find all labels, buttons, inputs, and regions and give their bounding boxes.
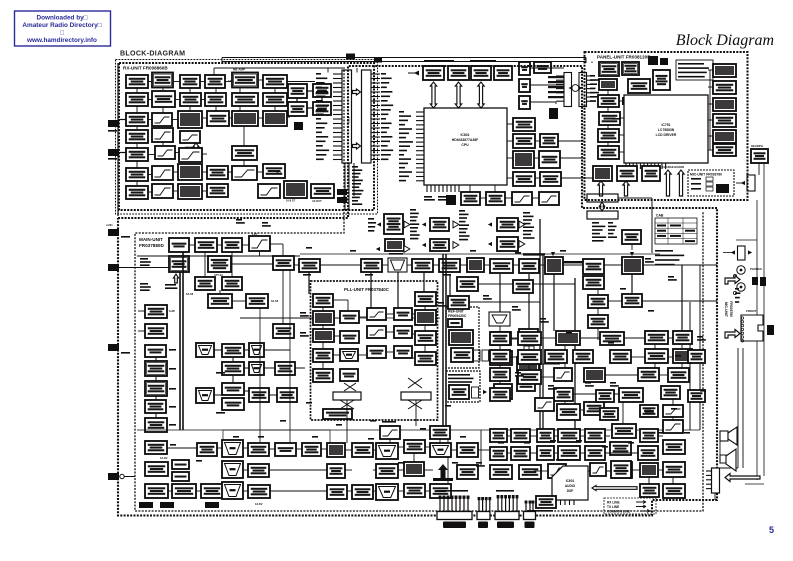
Q816 transmit SW (540, 172, 561, 186)
wire c3 (189, 88, 191, 93)
sq labels (216, 372, 225, 374)
ceramic filter CF201 (169, 256, 189, 272)
wire leftcol 1 (155, 357, 157, 361)
wire agc2 (243, 160, 245, 166)
IC601 audio DSP block (552, 466, 588, 500)
RX Q1034 NB amp (263, 75, 287, 88)
Q226 sql sw (222, 383, 244, 395)
RX 1st mixer D1001 (178, 111, 202, 128)
RX Q1009 converter (180, 93, 201, 106)
MAIN amp (430, 443, 451, 457)
RX noise amp (178, 184, 202, 199)
wire chain drop x632 (631, 274, 633, 294)
svg-text:HD6433877A38F: HD6433877A38F (452, 138, 478, 142)
wire c4 (215, 88, 217, 93)
PANEL Q751 driver (598, 95, 619, 107)
AF Q417 out (430, 484, 451, 498)
REF Q502 buffer (451, 348, 473, 362)
audio extra block B1 (545, 350, 567, 363)
RX Q1020 det (126, 148, 148, 161)
scattered wire labels (236, 219, 245, 224)
tcxo out arrow (483, 390, 487, 394)
arrow chargeSW up (623, 181, 629, 196)
wire chain drop x682 (681, 265, 683, 331)
wire nb3 (274, 88, 276, 93)
PLL VCO1 (313, 311, 334, 325)
RX DET out (311, 184, 334, 198)
PLL charge pump (367, 346, 386, 358)
audio section block A19 (661, 386, 680, 399)
speaker connector bar (712, 468, 720, 493)
audio extra block B5 (596, 390, 614, 402)
IC751 LCD driver (624, 95, 708, 163)
AF Q409 vol (352, 443, 373, 457)
Q211 IF amp3 (273, 256, 294, 270)
wire chain drop x529 (528, 274, 530, 329)
SQ amp trap 3 (249, 362, 264, 375)
Q220 squelch amp (222, 344, 244, 357)
audio section block A28 (558, 429, 580, 442)
TCXO-UNIT FR005410C enclosure (446, 371, 480, 402)
audio section block A9 (610, 350, 631, 363)
PLL Q601 HPF (313, 294, 333, 307)
svg-text:J-201: J-201 (106, 223, 113, 227)
RX Q1030 (207, 184, 228, 197)
bus upper left long (137, 255, 300, 257)
wire rx col7 d (321, 97, 323, 102)
PANEL LCD segment block 6 (713, 144, 736, 156)
Q521 buffer (448, 296, 469, 309)
QT202 TX amp2 (430, 218, 449, 231)
junction dot (120, 474, 124, 478)
J751-J752 link symbol (572, 85, 579, 92)
Q207 buffer (195, 277, 215, 290)
TX strip labels mid (459, 210, 470, 240)
IC811 mute SW (539, 151, 560, 168)
wire chain drop x554 (553, 274, 555, 331)
RX T001 filter (126, 75, 148, 88)
wire r2b (176, 99, 180, 101)
wire r3e (258, 117, 263, 119)
IC602 codec (611, 461, 631, 478)
audio extra block B10 (688, 390, 705, 402)
wire r1 (148, 81, 152, 83)
svg-text:IC801: IC801 (460, 133, 469, 137)
PLL Q611 doubler (313, 369, 333, 382)
Q215 S-meter (145, 305, 167, 318)
audio section block A20 (535, 398, 554, 411)
svg-text:Amateur Radio Directory□: Amateur Radio Directory□ (22, 22, 101, 29)
audio section block A39 (490, 465, 512, 479)
J102 right pin ticks (371, 74, 380, 160)
bus right vertical c (699, 265, 701, 430)
arrowhead TX1 (377, 222, 381, 226)
Q813 driver (513, 172, 535, 186)
AF Q410 tone (327, 464, 345, 478)
FRONT mic block (767, 325, 774, 335)
legend arrows (636, 501, 650, 513)
top bus connector blobs (346, 54, 355, 60)
AF Q408 sum3 (248, 485, 270, 498)
svg-text:13-8V: 13-8V (160, 456, 168, 460)
REF X501 TCXO (449, 330, 473, 345)
clock xtal a (172, 460, 189, 469)
Q305 drive (439, 259, 460, 272)
audio section block A2 (518, 332, 541, 345)
J202 stub (108, 264, 119, 271)
AF Q401 mic amp (145, 441, 167, 454)
Q807 attenuator (486, 192, 505, 205)
jack MIC (737, 283, 745, 291)
AF Q411 agc (327, 485, 347, 499)
TCXO-UNIT label (448, 374, 474, 383)
wire r5c (202, 153, 207, 155)
wire c1 (136, 87, 138, 93)
J651 label plate (443, 522, 466, 529)
wire r6 (148, 174, 152, 176)
svg-text:PLL-UNIT FR037840C: PLL-UNIT FR037840C (344, 287, 390, 292)
J101-J102 arrow top (353, 89, 361, 95)
Q805 dark block (446, 195, 456, 205)
RX Q1006 amp (126, 93, 148, 106)
J654 stub sticks (525, 503, 527, 511)
svg-text:S4-S6: S4-S6 (271, 299, 279, 303)
Q228 hold (249, 388, 269, 402)
wire c1e (136, 161, 138, 168)
PANEL key switches (599, 79, 617, 90)
PLL LPF1 (367, 308, 386, 320)
arrowhead TX2 (404, 221, 410, 228)
audio section block A17 (554, 388, 573, 401)
RX ATT (263, 164, 285, 178)
RX IF filter (179, 148, 202, 162)
PANEL charge jack (593, 166, 612, 181)
J601 connector bar (333, 392, 361, 400)
PANEL LCD segment block 2 (713, 81, 736, 94)
wire r1d (225, 81, 232, 83)
MCF filter (249, 236, 270, 251)
line legend (604, 498, 656, 514)
audio section block A27 (537, 429, 554, 442)
IC301 FM IF (545, 257, 563, 274)
J752 labels (590, 75, 599, 102)
wire chain drop x424 (423, 272, 425, 292)
svg-text:FR005420C: FR005420C (448, 314, 467, 318)
wire top bus 1 (222, 57, 586, 59)
CPU bottom pin labels (424, 196, 435, 201)
audio section block A16 (668, 368, 689, 382)
RX left antenna stub 1 (108, 120, 119, 127)
PLL Q613 buffer3 (415, 352, 436, 365)
CAB table cells (657, 225, 666, 227)
RX Q1050 gate (288, 84, 307, 98)
AF Q418 sp sw (457, 443, 478, 457)
wire rx col7 c (296, 98, 298, 102)
svg-text:CHARGE BOARD: CHARGE BOARD (662, 165, 684, 169)
TX/RX switch relay (622, 257, 643, 274)
RX Q1004 RF amp (180, 75, 200, 88)
dark stub under connector (549, 108, 558, 119)
Q815 power SW (540, 134, 558, 147)
audio section block A38 (638, 446, 658, 460)
svg-text:AF OUT: AF OUT (312, 199, 322, 203)
wire agc (243, 126, 245, 146)
X301 crystal (467, 258, 484, 272)
RX 2nd mixer (178, 164, 202, 180)
svg-text:S4-S6: S4-S6 (186, 292, 194, 296)
ref small box b (482, 350, 489, 361)
TX strip labels right (523, 212, 535, 239)
right margin wires top (756, 200, 758, 480)
IC810 audio switch (513, 151, 534, 168)
PLL VCO2 (313, 329, 334, 342)
SQ amp trap 1 (196, 343, 214, 357)
bus left mid vertical (289, 270, 291, 443)
QT500 LPF (583, 259, 604, 274)
QT502 amp (588, 295, 608, 308)
PLL Q615 switcher (323, 409, 352, 419)
J652 bottom connector (477, 512, 490, 520)
Q225 noise det (275, 362, 295, 375)
audio section block A6 (673, 331, 692, 344)
IC801 CPU HD6433877 (424, 108, 507, 185)
svg-text:TX LINE: TX LINE (607, 505, 619, 509)
RX Q1015 1st IF amp (207, 111, 229, 126)
Q204 IF amp (195, 238, 217, 252)
margin tiny labels (735, 288, 740, 303)
J101-J102 arrow bottom (353, 143, 361, 149)
ref small box a (474, 350, 481, 361)
audio section block A18 (619, 388, 643, 402)
svg-text:FR028780: FR028780 (729, 301, 733, 317)
J751 left ticks (556, 76, 564, 101)
QT501 buffer (583, 276, 604, 289)
connector J751 strip (564, 73, 572, 107)
wire r6c (202, 171, 207, 173)
audio section block A43 (640, 463, 658, 477)
wire margin to speaker bar (720, 467, 738, 469)
wire to panel 2 (560, 157, 584, 159)
bottom stub cluster 3 (498, 498, 517, 511)
wire lcd-stack (709, 70, 711, 150)
bottom stub cluster 1 (440, 498, 468, 511)
wire c1f (136, 181, 138, 186)
TX strip labels far left (368, 218, 376, 232)
thick bus segment a (523, 253, 545, 255)
bus vertical right of ref (574, 278, 576, 430)
svg-text:Downloaded by□: Downloaded by□ (36, 15, 87, 22)
PANEL-UNIT FR038120B enclosure (585, 52, 748, 200)
left col Q221 (145, 345, 166, 357)
Q306 amp2 (519, 259, 539, 273)
AF Q412 lim (352, 485, 373, 499)
dsp bottom stubs (556, 500, 574, 505)
wires below J101 (344, 163, 346, 210)
PANEL Q760 charge SW (617, 166, 637, 181)
AF Q415 drv (404, 484, 425, 497)
U803 X-tal osc (471, 66, 491, 80)
RX 3rd LPF (155, 146, 175, 159)
AF Q419 sp amp (457, 465, 478, 479)
audio extra block B9 (688, 350, 705, 363)
wire antenna to T001 (119, 119, 126, 121)
MAIN-UNIT inner border (135, 70, 703, 511)
Q530 det (622, 294, 642, 307)
IC521 mixer (517, 357, 539, 371)
arrow check up (665, 170, 671, 196)
Q229 timer (277, 388, 297, 402)
bus vertical pll right a (442, 254, 444, 428)
PANEL LCD segment block 1 (713, 64, 736, 77)
bus vertical pll right b (445, 254, 447, 428)
LCD spec text lines (678, 63, 709, 78)
Q304 amp (412, 259, 433, 272)
bus down a (447, 430, 449, 510)
arrow remote up (678, 170, 684, 196)
PLL IC601 PLL IC (415, 310, 436, 325)
connector J752 strip (579, 73, 587, 107)
MIC switch row 3 (691, 188, 701, 190)
audio section block A42 (612, 462, 632, 478)
PLL Q612 (340, 369, 358, 381)
SQ amp trap 2 (249, 343, 264, 357)
wire r3d (229, 117, 232, 119)
audio extra block B3 (490, 368, 510, 381)
PLL X-wires below left (340, 400, 354, 409)
arrow charge up (598, 181, 604, 196)
wire c1c (136, 126, 138, 130)
MCF + ATT block (208, 256, 231, 272)
RX-UNIT FR008860B enclosure (119, 63, 374, 210)
PLL Q608 buffer2 (313, 349, 333, 362)
PANEL mode switch (599, 62, 619, 76)
DSP top labels (556, 459, 578, 461)
svg-text:□: □ (60, 30, 64, 37)
IN amp (376, 443, 398, 459)
bus q520 right (512, 283, 575, 285)
J501 PA connector bar (587, 194, 618, 202)
wire J501 right (618, 197, 652, 199)
wire c1d (136, 143, 138, 148)
phone connector bar (738, 246, 746, 260)
jack PHONES (737, 266, 745, 274)
PANEL battery sense (642, 166, 660, 181)
RX T002 filter (205, 75, 225, 88)
panel small stub A (622, 97, 630, 105)
PLL Q602 buffer (415, 292, 436, 306)
RX 2nd LPF (152, 128, 173, 142)
Q522 amp2 (492, 332, 511, 345)
AF mute gate (404, 462, 424, 476)
rx left stub labels (108, 130, 117, 132)
PLL Q604 amp (394, 308, 412, 320)
power stub c (205, 502, 219, 508)
left col labels2 (169, 388, 176, 390)
elbow arrow into speaker bar (725, 474, 760, 482)
wire chain drop x450 (449, 274, 451, 296)
Q523 buffer2 (494, 384, 512, 399)
wire c2c (162, 142, 164, 146)
RX LPF5 (152, 184, 173, 198)
AF Q414 sw (404, 440, 425, 453)
bus right vertical a (651, 202, 653, 253)
audio extra block B6 (640, 405, 658, 417)
wire left stub to T204 (118, 267, 170, 269)
wire r7b (173, 190, 178, 192)
audio section block A40 (519, 465, 541, 479)
RX T003 trap (126, 113, 148, 126)
RX meter stub (294, 122, 303, 130)
wire rx top drop2 (327, 68, 329, 73)
RX noise blanker gate (232, 73, 258, 88)
svg-text:Block Diagram: Block Diagram (676, 32, 774, 49)
Q501 PA driver (622, 230, 641, 244)
svg-text:13-8V: 13-8V (255, 502, 263, 506)
CPU bottom pins (427, 185, 459, 192)
audio section block A30 (610, 442, 631, 455)
J752 right ticks (587, 76, 595, 101)
svg-text:www.hamdirectory.info: www.hamdirectory.info (26, 37, 97, 44)
PLL-UNIT FR037840C enclosure (311, 281, 438, 420)
audio section block A1 (490, 332, 510, 345)
MIC amp block (716, 184, 729, 193)
LPF label above (382, 421, 396, 423)
Q806 regulator (461, 192, 480, 205)
svg-text:10-8 ST: 10-8 ST (286, 199, 296, 203)
RX-UNIT outer dashed border (116, 60, 378, 215)
AF Q407 sum2 (248, 464, 269, 477)
arrow IF down (173, 274, 178, 283)
RX S-meter amp (258, 184, 280, 198)
PLL Q603 (340, 311, 359, 323)
wire r1e (258, 79, 263, 81)
wire r1b (173, 81, 180, 83)
RX Q1052 sw (313, 84, 331, 97)
speaker large (720, 449, 736, 471)
elbow arrow lower (725, 330, 740, 339)
PLL Q605 amp (394, 326, 412, 338)
wire cpu-q810 (507, 123, 513, 125)
wire r3b (172, 119, 178, 121)
right margin wire pair to speaker (737, 348, 739, 468)
LCD driver bottom pins (626, 163, 666, 169)
wire to panel 3 (561, 177, 596, 179)
transistor blob base (433, 478, 453, 481)
wire r2c (201, 99, 205, 101)
audio section block A3 (556, 331, 580, 345)
audio section block A29 (585, 429, 605, 442)
PANEL Q754 backlight (598, 146, 619, 159)
wire r3 (148, 119, 152, 121)
speaker relay note (527, 510, 553, 512)
RX squelch (284, 181, 307, 198)
wire r7 (148, 191, 152, 193)
audio section block A33 (490, 447, 507, 460)
Q620 speaker relay (536, 496, 556, 508)
RX LPF4 (152, 166, 173, 180)
connector J101 strip (342, 70, 352, 163)
wire left stub to clock (124, 476, 135, 478)
audio section block A12 (518, 370, 541, 384)
AF Q413 mod in (376, 464, 398, 478)
AF IC402 mute (327, 443, 345, 457)
RX crystal filter (232, 111, 258, 126)
jack small boxes (752, 277, 758, 285)
left border labels a (140, 258, 151, 266)
arrow into DSP from right (592, 485, 637, 490)
arrow into TXRX switch (630, 252, 634, 256)
AF Q404 eq (201, 484, 223, 498)
